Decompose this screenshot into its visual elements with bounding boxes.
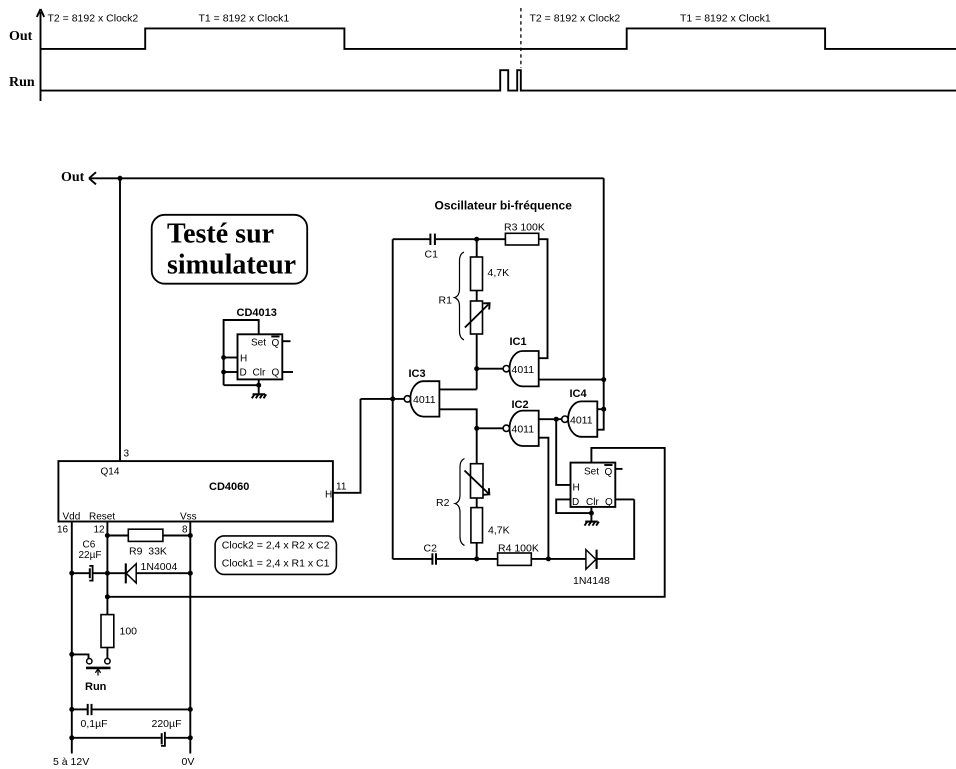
wire 100 to switch [106, 648, 108, 659]
wire Clr to ground [224, 384, 259, 386]
wire R4 to diode [531, 558, 586, 560]
wire Reset long line to FF2 Set loop [107, 448, 664, 597]
wire IC2 output to node [477, 427, 503, 429]
junction Reset/run [105, 594, 110, 599]
svg-text:22µF: 22µF [79, 550, 102, 561]
junction Clr/gnd [256, 383, 261, 388]
junction 220uF right [188, 735, 193, 740]
wire Q to diode node [615, 498, 634, 500]
wire from Out corner down to IC1/IC4 inputs [603, 178, 605, 409]
svg-text:R9 33K: R9 33K [129, 546, 167, 558]
junction 0,1uF right [188, 707, 193, 712]
op-gate IC1 4011 [503, 336, 539, 386]
svg-text:IC1: IC1 [510, 336, 527, 348]
svg-text:C6: C6 [83, 540, 96, 551]
svg-text:Oscillateur bi-fréquence: Oscillateur bi-fréquence [435, 199, 573, 213]
junction to FF2 clock [554, 417, 559, 422]
wire bottom rail of oscillator [393, 558, 432, 560]
op-gate IC2 4011 [503, 399, 539, 446]
svg-text:4011: 4011 [512, 424, 535, 436]
wire R3 right to IC1 input [539, 239, 548, 358]
CD4060 box [58, 461, 333, 521]
wire switch to Vdd rail [72, 654, 89, 658]
svg-text:R2: R2 [436, 497, 450, 509]
junction R9 right [188, 533, 193, 538]
capacitor 0,1uF row [72, 704, 191, 730]
junction diode right [188, 571, 193, 576]
wire between R1 parts [476, 291, 478, 302]
ground symbol [252, 394, 266, 398]
wire H to IC2/IC4 node [556, 419, 570, 485]
svg-text:T1 = 8192 x Clock1: T1 = 8192 x Clock1 [199, 13, 290, 25]
svg-text:1N4004: 1N4004 [141, 561, 178, 573]
svg-text:Out: Out [9, 29, 33, 44]
svg-text:C1: C1 [425, 249, 439, 261]
wire D pin [224, 371, 238, 373]
dashed period separator [520, 8, 522, 68]
junction H [221, 355, 226, 360]
svg-text:CD4060: CD4060 [209, 481, 249, 493]
wire Vss (pin8) down [189, 522, 191, 754]
wire C6 row [72, 572, 89, 574]
resistor 4,7K (R2 fixed part) [471, 508, 510, 543]
svg-text:16: 16 [57, 525, 69, 536]
junction bottom node [474, 556, 479, 561]
capacitor C1 [425, 234, 439, 261]
node down to R2 [476, 428, 478, 463]
wire between R2 parts [476, 498, 478, 508]
wire left loop vertical [392, 239, 394, 559]
pin label Qbar [604, 465, 612, 478]
diode 1N4148 [573, 550, 610, 587]
junction Clr/D [589, 511, 594, 516]
wire IC1 lower input to Out line [539, 379, 604, 381]
junction IC3 out / left loop [390, 396, 395, 401]
op-gate IC3 4011 [404, 368, 439, 417]
svg-text:4,7K: 4,7K [488, 267, 510, 279]
wire to CD4060 pin 11 [333, 399, 361, 493]
flip-flop U2b box [571, 463, 616, 507]
capacitor C6 22uF [79, 540, 102, 581]
svg-text:4011: 4011 [570, 415, 593, 427]
brace R1 [455, 252, 465, 340]
svg-text:R1: R1 [439, 295, 453, 307]
axis with up arrow [37, 9, 44, 101]
brace R2 [455, 459, 465, 546]
resistor R9 33K [128, 529, 167, 557]
svg-text:Testé sur: Testé sur [167, 219, 274, 250]
svg-text:4011: 4011 [413, 394, 436, 406]
svg-text:Vdd: Vdd [63, 512, 81, 523]
capacitor 220uF row [72, 718, 191, 746]
svg-text:C2: C2 [424, 543, 438, 555]
wire IC2 top input to IC4 output [539, 418, 562, 420]
svg-text:Run: Run [85, 681, 107, 693]
svg-text:220µF: 220µF [152, 718, 182, 730]
junction D [221, 370, 226, 375]
svg-text:Clr: Clr [586, 497, 599, 508]
wire R1 bottom to IC1 out node [476, 334, 478, 389]
svg-text:Out: Out [61, 170, 85, 185]
svg-text:8: 8 [182, 525, 188, 536]
svg-text:Run: Run [9, 75, 35, 90]
pin label Qbar [271, 337, 279, 350]
wire R2 bottom to bottom rail [476, 543, 478, 559]
diode 1N4004 [126, 561, 178, 584]
svg-text:H: H [240, 354, 247, 365]
op-gate IC4 4011 [562, 388, 598, 437]
junction 220uF left [69, 735, 74, 740]
junction 0,1uF left [69, 707, 74, 712]
wire IC4 tied inputs [597, 409, 603, 430]
junction R9 left [105, 533, 110, 538]
stub Qbar [615, 468, 622, 470]
wire top node down to R1 [476, 239, 478, 257]
wire IC1 output to node [477, 368, 503, 370]
junction IC1 out node [474, 366, 479, 371]
wire D loop to Clr/ground [556, 499, 591, 513]
wire R9 [107, 535, 128, 537]
svg-text:Q: Q [605, 467, 613, 478]
ground symbol FF2 [585, 522, 599, 526]
wire IC2 bottom input down to R4 node [539, 438, 549, 559]
resistor R4 [498, 543, 539, 566]
wire IC3 inputs [439, 388, 476, 390]
svg-text:H: H [325, 490, 332, 501]
variable resistor R2 [465, 464, 490, 498]
node junction on Out wire [118, 176, 123, 181]
svg-text:Vss: Vss [180, 512, 197, 523]
svg-text:Set: Set [251, 338, 266, 349]
junction C6 left [69, 571, 74, 576]
svg-text:Clr: Clr [253, 368, 266, 379]
resistor R3 [504, 222, 545, 246]
variable resistor R1 [465, 301, 490, 334]
svg-text:Q: Q [272, 368, 280, 379]
svg-text:12: 12 [94, 525, 106, 536]
junction top node [474, 237, 479, 242]
junction C6 right / diode left [105, 571, 110, 576]
svg-text:Q: Q [272, 338, 280, 349]
junction switch/Vdd [69, 652, 74, 657]
svg-text:CD4013: CD4013 [237, 307, 277, 319]
stub Qbar [282, 340, 290, 342]
svg-text:D: D [572, 497, 579, 508]
wire Vdd rail (pin16) down [71, 522, 73, 754]
junction on Out vertical [601, 377, 606, 382]
svg-text:R3 100K: R3 100K [504, 222, 545, 234]
wire top rail of oscillator [393, 238, 430, 240]
svg-text:0V: 0V [182, 756, 195, 768]
svg-text:Set: Set [584, 467, 599, 478]
svg-text:simulateur: simulateur [167, 250, 296, 281]
Run waveform with two pulses [41, 70, 956, 90]
Out waveform [41, 28, 956, 49]
capacitor C2 [424, 543, 438, 565]
wire H pin [224, 357, 238, 359]
flip-flop U2a box [238, 334, 283, 379]
svg-text:H: H [573, 483, 580, 494]
junction R4/IC2 input [546, 556, 551, 561]
svg-text:Clock2 = 2,4 x R2 x C2: Clock2 = 2,4 x R2 x C2 [222, 540, 330, 552]
svg-text:T2 = 8192 x Clock2: T2 = 8192 x Clock2 [48, 13, 139, 25]
svg-text:5 à 12V: 5 à 12V [53, 756, 89, 768]
svg-text:IC2: IC2 [512, 399, 529, 411]
wire Reset (pin12) down [106, 522, 108, 615]
wire Set loop to left rail [224, 320, 259, 385]
junction IC4 input [601, 407, 606, 412]
stub Q [282, 371, 293, 373]
resistor 100 [101, 615, 137, 648]
svg-text:D: D [240, 368, 247, 379]
resistor 4,7K (R1 fixed part) [471, 257, 510, 291]
svg-text:3: 3 [124, 449, 130, 460]
svg-text:4,7K: 4,7K [488, 525, 510, 537]
wire Out with left arrow [89, 172, 604, 184]
svg-text:T2 = 8192 x Clock2: T2 = 8192 x Clock2 [530, 13, 621, 25]
wire diode to Vss rail [136, 572, 190, 574]
svg-text:Clock1 = 2,4 x R1 x C1: Clock1 = 2,4 x R1 x C1 [222, 557, 330, 569]
svg-text:Q14: Q14 [101, 467, 120, 478]
svg-text:0,1µF: 0,1µF [81, 718, 108, 730]
svg-text:100: 100 [120, 626, 138, 638]
wire diode to FF2 Q [597, 499, 635, 559]
svg-text:Q: Q [605, 497, 613, 508]
svg-text:IC3: IC3 [409, 368, 426, 380]
svg-text:4011: 4011 [512, 364, 535, 376]
svg-text:T1 = 8192 x Clock1: T1 = 8192 x Clock1 [680, 13, 771, 25]
switch Run (push button) [86, 659, 111, 676]
wire from Out node down to CD4060 pin 3 [119, 178, 121, 461]
junction IC2 out node [474, 426, 479, 431]
svg-text:IC4: IC4 [570, 388, 588, 400]
svg-text:Reset: Reset [89, 512, 115, 523]
wire IC3 output to H line [361, 398, 405, 400]
svg-text:11: 11 [336, 482, 347, 493]
wire Clr down [590, 507, 592, 522]
svg-text:1N4148: 1N4148 [573, 575, 610, 587]
